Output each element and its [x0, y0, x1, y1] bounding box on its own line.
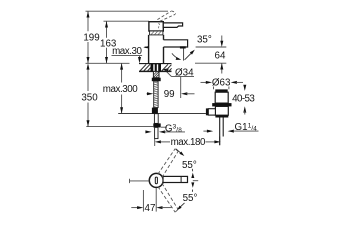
wire hose-end reference line	[86, 126, 153, 128]
hose pipe	[154, 114, 158, 124]
wire 99 right reference drop line	[180, 77, 182, 99]
wire spout outlet extension line	[196, 46, 227, 48]
shank below deck hatched	[153, 71, 159, 77]
top view lever tip line	[180, 176, 182, 182]
svg-text:55°: 55°	[183, 193, 198, 204]
drain tailpipe	[219, 118, 221, 146]
top view left reference line with tick	[130, 180, 150, 182]
svg-text:Ø63: Ø63	[212, 78, 231, 89]
dimension max.180 horizontal	[155, 140, 161, 143]
faucet aerator	[180, 46, 186, 48]
deck bottom line	[139, 70, 172, 72]
label G 1 1/4 with arrows	[203, 130, 208, 132]
faucet retaining ring hatched band	[150, 31, 163, 35]
wire max.180 left extension	[154, 139, 156, 147]
svg-text:G11/4: G11/4	[235, 122, 258, 133]
dimension 199 and 350 vertical line	[87, 11, 89, 126]
label G 3/8 with arrows	[146, 131, 148, 133]
drain side outlet	[208, 109, 215, 115]
wire diameter 63 extension lines	[213, 87, 215, 90]
faucet cartridge box	[149, 22, 163, 31]
swing arc right vertical dashes and arrowheads	[191, 169, 193, 172]
dimension max.300 vertical line	[121, 63, 123, 113]
top view dashed lever up position	[158, 149, 178, 178]
svg-text:40-53: 40-53	[232, 94, 255, 105]
drain bottom band	[215, 115, 228, 117]
drain neck	[215, 92, 228, 103]
swing reference short line	[193, 180, 198, 182]
top view lever slot	[155, 177, 157, 184]
dimension 47	[142, 190, 144, 212]
drain body	[215, 106, 228, 115]
deck hatched cross-section	[140, 64, 172, 71]
svg-text:47: 47	[145, 203, 156, 214]
supply nut lower	[153, 123, 160, 127]
svg-text:35°: 35°	[197, 34, 212, 45]
drain flange	[212, 103, 231, 106]
faucet spout	[164, 40, 188, 47]
faucet cartridge inner dashed lever pivot	[159, 23, 160, 29]
hose fitting	[152, 108, 158, 114]
faucet lever dashed raised position	[157, 11, 175, 21]
top view lever bar	[163, 176, 188, 182]
jet vertical line	[183, 48, 185, 60]
swivel arc left arrowhead	[145, 46, 149, 48]
wire top extension line 199 level	[86, 10, 169, 12]
deck top surface line	[139, 63, 172, 65]
svg-text:55°: 55°	[182, 160, 197, 171]
swing arc upper solid with arrowhead	[176, 149, 181, 153]
wire extension line 163 level	[104, 20, 150, 22]
svg-text:64: 64	[215, 50, 226, 61]
dimension 163 vertical line	[106, 21, 108, 63]
svg-text:99: 99	[164, 89, 175, 100]
wire max.180 right extension	[219, 137, 221, 146]
supply nut upper	[152, 78, 161, 82]
faucet lever handle	[163, 23, 182, 28]
wire deck extension line right	[195, 62, 226, 64]
top view circle	[149, 173, 163, 187]
top view dashed lever down position	[158, 183, 178, 212]
svg-text:max.180: max.180	[171, 137, 206, 148]
svg-text:199: 199	[83, 33, 99, 44]
svg-text:G3/8: G3/8	[165, 123, 182, 134]
swing arc lower solid with arrowhead	[180, 203, 184, 207]
faucet threaded shank through deck	[151, 64, 162, 72]
svg-text:max.300: max.300	[103, 84, 138, 95]
faucet body	[149, 35, 164, 64]
dimension 64 vertical	[221, 36, 223, 74]
dimension 99 horizontal	[147, 93, 150, 95]
wire pop-up rod horizontal	[118, 113, 206, 115]
drain plug cap	[215, 89, 227, 92]
jet 35 degree line with arrow	[185, 54, 191, 60]
wire hose-end stub right	[161, 126, 167, 128]
svg-text:350: 350	[81, 93, 98, 104]
drain side outlet cap	[206, 108, 208, 115]
wire deck extension line left	[86, 62, 130, 64]
supply pipe end G3/8	[155, 127, 158, 138]
swivel arc right segment with arrowhead	[172, 53, 179, 59]
dimension 40-53 vertical	[244, 85, 246, 88]
threaded supply rod	[154, 81, 158, 107]
